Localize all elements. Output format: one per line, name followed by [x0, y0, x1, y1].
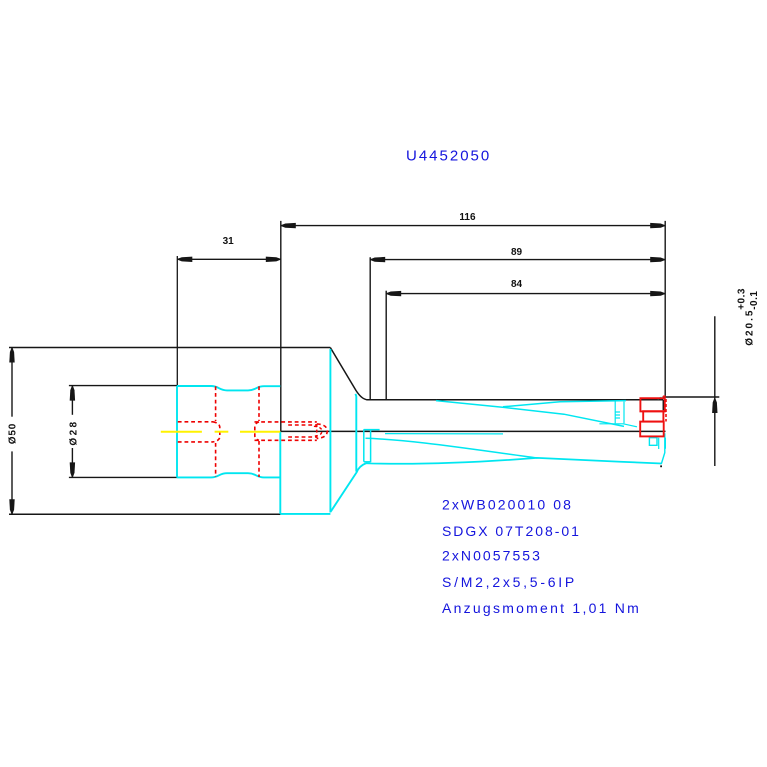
coolant hole hidden line left: [215, 386, 217, 421]
insert bottom outline red: [640, 422, 664, 437]
insert right cutting edge red dashes: [665, 399, 667, 422]
tip cyan vertical a: [614, 401, 616, 424]
dimension 116 right arrow: [650, 223, 665, 228]
drill top silhouette y=400: [367, 399, 664, 401]
tip cyan vertical b: [623, 402, 625, 424]
dimension D20.5 ext line: [663, 396, 720, 398]
flute helix line lower: [366, 438, 538, 458]
dimension D50 bottom arrow: [9, 499, 14, 514]
dimension 116 line: [281, 225, 665, 227]
holder taper curve top: [330, 348, 368, 400]
coolant hole hidden line right: [258, 386, 260, 421]
dimension 89 left arrow: [371, 257, 386, 262]
flute edge below center: [385, 433, 503, 435]
screw1 bottom hidden edge: [178, 441, 213, 443]
drill taper bottom: [331, 463, 366, 511]
drill flange right face: [329, 349, 331, 513]
svg-text:31: 31: [223, 236, 235, 247]
svg-text:89: 89: [511, 247, 523, 258]
extension line left flange face x=281: [280, 221, 282, 432]
svg-text:+0.3: +0.3: [737, 288, 748, 310]
drill shank bottom edge wavy: [177, 473, 280, 477]
parts list text block: [442, 496, 641, 616]
flute start pocket right: [370, 429, 372, 462]
dimension 84 right arrow: [650, 291, 665, 296]
svg-text:Ø50: Ø50: [8, 423, 19, 444]
dimension D50 line upper: [11, 348, 13, 417]
screw2 bottom hidden edge: [255, 439, 317, 441]
dimension 116 left arrow: [281, 223, 296, 228]
dimension D20.5 label: [737, 288, 761, 346]
svg-text:2xWB020010 08: 2xWB020010 08: [442, 496, 573, 512]
center silhouette line y=431.4: [281, 430, 666, 432]
dimension 84 left arrow: [387, 291, 402, 296]
svg-text:S/M2,2x5,5-6IP: S/M2,2x5,5-6IP: [442, 574, 577, 590]
svg-text:U4452050: U4452050: [406, 148, 491, 165]
flute start pocket bottom: [364, 461, 371, 463]
dimension D28 label: [69, 419, 80, 445]
dimension D28 top arrow: [70, 386, 75, 401]
svg-text:Anzugsmoment 1,01 Nm: Anzugsmoment 1,01 Nm: [442, 600, 641, 616]
drill flange left face cyan: [279, 432, 281, 514]
tip cyan ladder ticks: [599, 412, 637, 427]
svg-text:84: 84: [511, 279, 523, 290]
holder top outline y=347.5: [9, 347, 330, 349]
svg-text:-0.1: -0.1: [749, 291, 760, 310]
svg-text:Ø20.5: Ø20.5: [745, 309, 756, 346]
tip cyan below center clamp: [649, 438, 657, 446]
tip end dot: [660, 465, 662, 467]
screw2 cone outer arc: [317, 424, 327, 439]
screw2 cone inner arc: [314, 426, 322, 436]
insert corner tab red: [663, 395, 666, 397]
tip cyan inner hook: [659, 438, 666, 449]
svg-text:116: 116: [459, 212, 476, 223]
dimension D50 top arrow: [9, 348, 14, 363]
flute start pocket top: [364, 429, 380, 431]
dimension D28 bottom arrow: [70, 462, 75, 477]
screw1 top hidden edge: [178, 421, 213, 423]
extension line 89: [369, 257, 371, 400]
dimension D28 line lower: [71, 448, 73, 477]
svg-text:Ø28: Ø28: [69, 419, 80, 445]
extension line 31 left x=177.3: [176, 256, 178, 386]
dimension D28 ext top: [69, 385, 177, 387]
dimension D20.5 line: [714, 316, 716, 466]
drill shank top edge wavy: [177, 386, 280, 390]
screw1 tip curve: [213, 422, 220, 442]
drill taper top cyan sliver: [355, 394, 358, 472]
drill flange bottom edge: [280, 513, 330, 515]
tip cyan outer edge: [661, 433, 665, 464]
dimension D20.5 arrow: [712, 398, 717, 413]
dimension 89 right arrow: [650, 257, 665, 262]
extension line 84: [385, 291, 387, 400]
drill tip step black: [662, 400, 664, 411]
screw2 inner thread top: [288, 424, 316, 426]
screw2 inner thread bottom: [288, 436, 316, 438]
drill shank section left edge cyan: [176, 386, 178, 478]
svg-text:SDGX 07T208-01: SDGX 07T208-01: [442, 523, 581, 539]
dimension 89 line: [370, 259, 665, 261]
flute helix top descending: [436, 401, 624, 427]
insert mid step red: [643, 411, 663, 421]
screw2 cone base vertical: [316, 424, 318, 438]
svg-text:2xN0057553: 2xN0057553: [442, 547, 542, 563]
flute start pocket left: [363, 429, 365, 461]
dimension 84 line: [386, 293, 665, 295]
flute helix top ascending: [503, 401, 626, 407]
center line yellow segment 2: [215, 431, 229, 433]
insert top outline red: [640, 398, 664, 411]
dimension 31 left arrow: [178, 257, 193, 262]
holder bottom outline y=514.3: [9, 513, 280, 515]
dimension D28 line upper: [71, 386, 73, 415]
dimension D50 label: [8, 423, 19, 444]
tip corner cyan: [658, 397, 662, 399]
drill bottom edge: [366, 458, 662, 464]
center line yellow segment 3: [240, 431, 280, 433]
dimension 31 line: [177, 258, 281, 260]
extension line drill tip x=665: [664, 221, 666, 397]
screw2 top hidden edge: [255, 421, 317, 423]
screw2 head seat curve: [255, 422, 259, 440]
dimension D50 line lower: [11, 451, 13, 514]
dimension 31 right arrow: [266, 257, 281, 262]
center line yellow segment 1: [161, 431, 202, 433]
dimension D28 ext bottom: [69, 476, 177, 478]
